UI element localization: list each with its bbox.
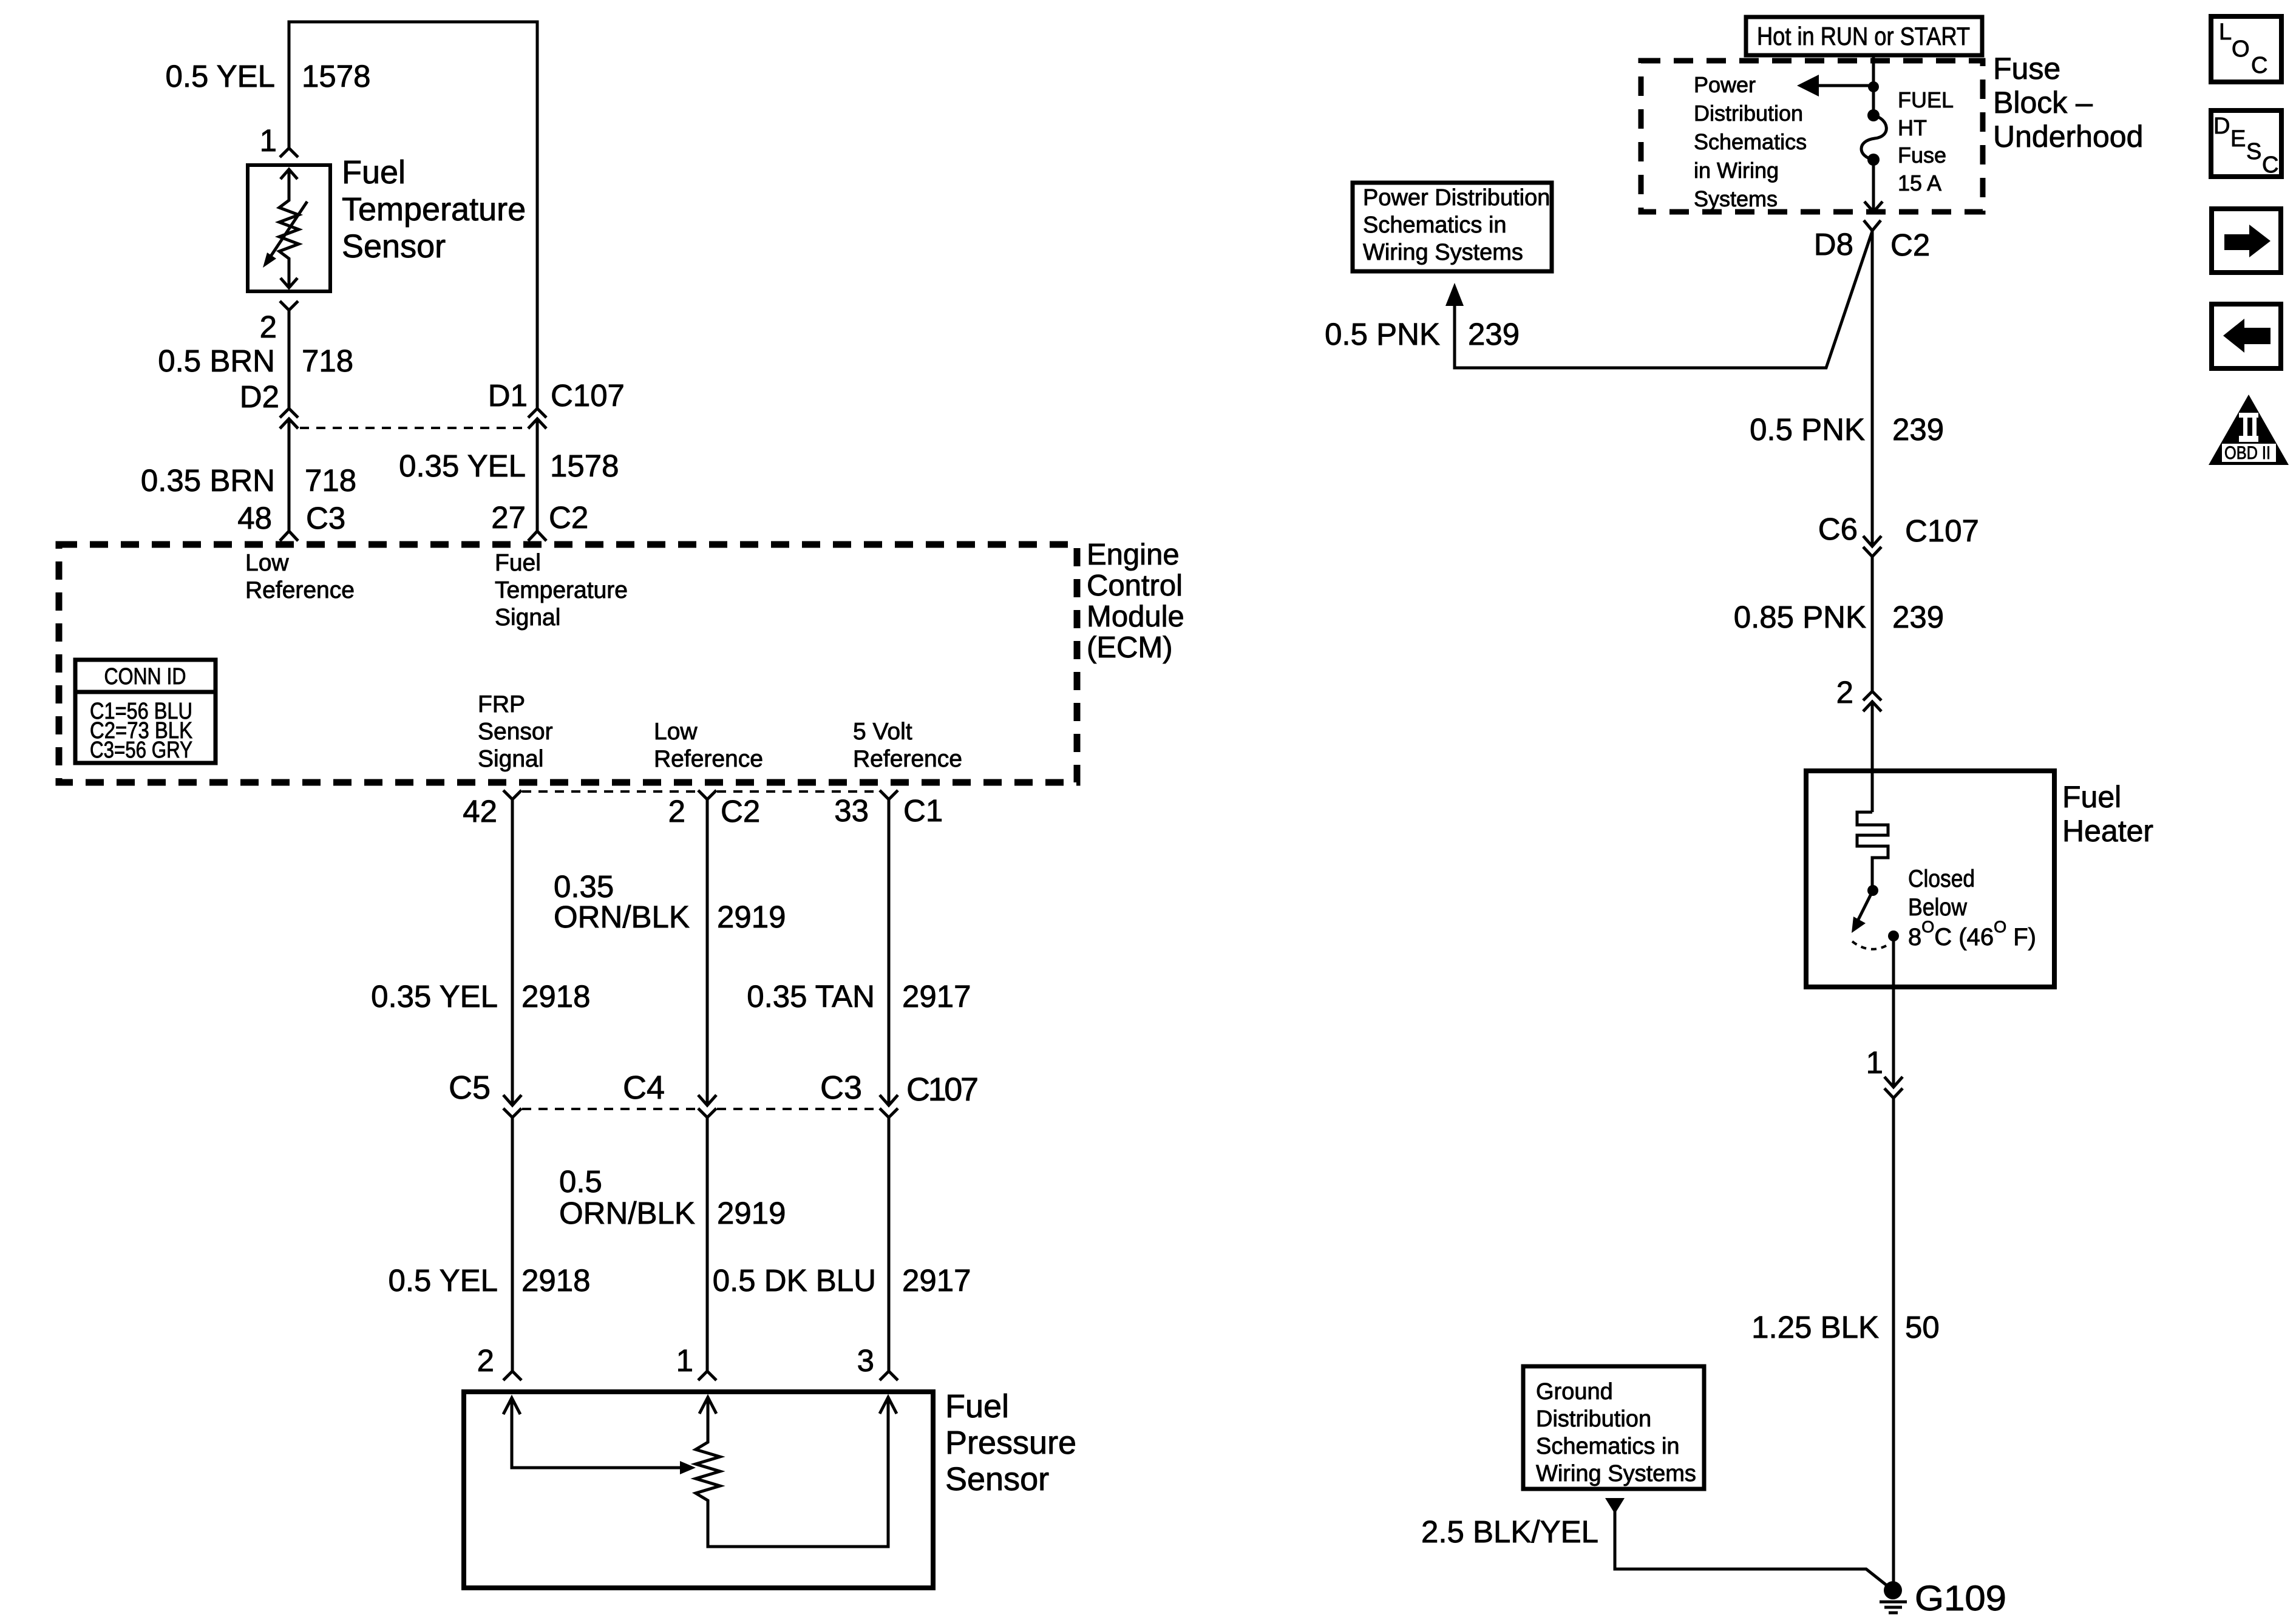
ground G109 symbol — [1880, 1581, 1907, 1613]
terminal fuel pressure sensor pin 3 — [880, 1371, 898, 1380]
svg-text:Sensor: Sensor — [945, 1461, 1049, 1497]
svg-text:0.5 PNK: 0.5 PNK — [1750, 412, 1865, 447]
wire fuel heater output — [1892, 936, 1895, 1087]
terminal ECM pin 2 — [698, 790, 716, 799]
wire from hot feed into fuse block — [1872, 55, 1875, 117]
Hot in RUN or START box — [1746, 17, 1982, 55]
icon OBD II triangle — [2209, 395, 2289, 465]
label Closed Below 8C 46F — [1908, 866, 2036, 951]
svg-text:0.5: 0.5 — [559, 1164, 602, 1199]
svg-text:C3: C3 — [306, 501, 345, 535]
svg-text:Module: Module — [1087, 600, 1184, 633]
svg-text:718: 718 — [305, 463, 356, 498]
labels pin 27 connector C2 — [491, 500, 588, 535]
label wire 0.5 PNK 239 branch — [1325, 317, 1520, 351]
svg-text:C1: C1 — [903, 793, 943, 828]
svg-text:0.5 BRN: 0.5 BRN — [158, 344, 275, 378]
label connector D2 — [240, 379, 279, 414]
svg-text:Fuse: Fuse — [1898, 143, 1946, 168]
wire CKT 239 main vertical to C6 — [1871, 231, 1874, 546]
thermistor symbol fuel temperature sensor — [263, 169, 307, 288]
fuel heater box — [1806, 771, 2054, 987]
fuse block underhood dashed box — [1641, 61, 1983, 212]
svg-text:CONN ID: CONN ID — [104, 664, 186, 690]
svg-text:1: 1 — [260, 123, 277, 158]
svg-text:(ECM): (ECM) — [1087, 631, 1173, 664]
svg-text:Reference: Reference — [853, 746, 962, 772]
svg-text:G109: G109 — [1915, 1579, 2006, 1617]
svg-text:Fuel: Fuel — [342, 154, 406, 191]
labels pin 48 connector C3 — [237, 501, 345, 535]
label Low Reference (pin 2) — [654, 719, 763, 772]
svg-text:Distribution: Distribution — [1694, 101, 1803, 126]
label Engine Control Module (ECM) — [1087, 538, 1184, 664]
dashed line ECM pin row — [522, 790, 879, 793]
dashed link connector C107 between D2 and D1 — [300, 427, 527, 429]
svg-text:Below: Below — [1908, 894, 1967, 921]
label wire 1.25 BLK 50 — [1751, 1310, 1940, 1344]
svg-text:C2: C2 — [721, 794, 760, 829]
svg-text:1578: 1578 — [302, 59, 370, 93]
labels ECM pins 42 2 C2 33 C1 — [463, 793, 943, 829]
terminal fuel pressure sensor pin 2 — [503, 1371, 521, 1380]
label Fuse Block - Underhood — [1993, 52, 2143, 154]
svg-text:Engine: Engine — [1087, 538, 1180, 571]
svg-text:15 A: 15 A — [1898, 171, 1941, 195]
svg-text:Sensor: Sensor — [342, 228, 446, 265]
label wire 0.35 YEL 2918 — [371, 979, 590, 1014]
svg-text:D8: D8 — [1814, 227, 1853, 262]
svg-text:Underhood: Underhood — [1993, 120, 2143, 154]
wire CKT 2919 upper segment — [706, 799, 709, 1105]
svg-text:1.25 BLK: 1.25 BLK — [1751, 1310, 1879, 1344]
label wire 0.5 YEL 1578 — [165, 59, 370, 93]
label FUEL HT Fuse 15 A — [1898, 87, 1954, 195]
svg-text:50: 50 — [1905, 1310, 1940, 1344]
connector C3 break symbol — [880, 1095, 898, 1117]
svg-text:S: S — [2246, 139, 2261, 164]
svg-text:ORN/BLK: ORN/BLK — [554, 900, 690, 934]
svg-text:1: 1 — [1866, 1045, 1883, 1080]
fuse FUEL HT 15 A symbol — [1861, 109, 1886, 166]
wire CKT 239 0.85 segment — [1871, 557, 1874, 691]
svg-text:239: 239 — [1468, 317, 1520, 351]
svg-text:Low: Low — [654, 719, 698, 745]
thermal switch fuel heater — [1852, 885, 1899, 949]
wire CKT 1578 top loop from fuel temp sensor pin 1 to connector D1 — [289, 22, 537, 408]
svg-text:Sensor: Sensor — [478, 719, 553, 745]
svg-text:Power: Power — [1694, 72, 1756, 97]
svg-text:Ground: Ground — [1536, 1379, 1613, 1405]
label wire 0.5 DK BLU 2917 — [713, 1263, 971, 1298]
svg-text:0.85 PNK: 0.85 PNK — [1734, 600, 1866, 634]
label Fuel Temperature Signal (pin 27) — [495, 550, 628, 631]
svg-text:239: 239 — [1892, 412, 1944, 447]
svg-text:2917: 2917 — [902, 979, 971, 1014]
pin 2 label fuel temperature sensor — [260, 310, 277, 344]
svg-text:L: L — [2219, 19, 2232, 45]
svg-text:2919: 2919 — [717, 1196, 786, 1230]
label wire 0.35 YEL 1578 — [399, 449, 619, 483]
svg-text:Reference: Reference — [654, 746, 763, 772]
svg-text:2918: 2918 — [521, 979, 590, 1014]
wire CKT 718 from D2 to ECM pin 48 — [288, 419, 291, 531]
terminal D8 C2 — [1864, 220, 1881, 231]
svg-text:ORN/BLK: ORN/BLK — [559, 1196, 695, 1230]
fuel pressure sensor internal pin 3 arrow — [880, 1397, 897, 1414]
svg-text:C5: C5 — [449, 1070, 491, 1106]
svg-text:1578: 1578 — [550, 449, 619, 483]
svg-text:0.35 BRN: 0.35 BRN — [141, 463, 275, 498]
svg-text:C107: C107 — [551, 378, 625, 413]
svg-text:FRP: FRP — [478, 691, 525, 717]
svg-text:2: 2 — [668, 794, 685, 829]
svg-text:Distribution: Distribution — [1536, 1406, 1651, 1432]
terminal pin 1 fuel temperature sensor — [280, 148, 298, 157]
wire CKT 1578 from D1 to ECM pin 27 — [536, 419, 539, 531]
labels connector D8 C2 — [1814, 227, 1930, 262]
svg-text:C2: C2 — [549, 500, 588, 535]
svg-text:E: E — [2230, 126, 2246, 152]
label wire 2.5 BLK/YEL — [1421, 1514, 1598, 1549]
svg-text:Signal: Signal — [478, 746, 543, 772]
svg-text:27: 27 — [491, 500, 526, 535]
terminal pin 2 fuel temperature sensor — [280, 301, 298, 310]
terminal ECM pin 27 — [528, 531, 546, 541]
fuel pressure sensor internal pin 2 arrow and wiper lead — [503, 1398, 696, 1474]
wire CKT 50 to ground — [1892, 1098, 1895, 1583]
svg-text:Fuel: Fuel — [495, 550, 541, 576]
terminal fuel pressure sensor pin 1 — [698, 1371, 716, 1380]
wire CKT 2918 upper segment — [511, 799, 514, 1105]
svg-text:C: C — [2251, 53, 2267, 78]
svg-text:Low: Low — [245, 550, 289, 576]
triangle connector ground distribution — [1605, 1498, 1625, 1514]
ECM engine control module dashed box — [59, 544, 1077, 782]
wire fuse output to connector D8 — [1872, 160, 1875, 212]
nav icon LOC — [2211, 16, 2281, 82]
svg-text:HT: HT — [1898, 115, 1927, 140]
svg-text:718: 718 — [302, 344, 353, 378]
svg-text:0.5 YEL: 0.5 YEL — [388, 1263, 498, 1298]
svg-text:Temperature: Temperature — [495, 577, 628, 603]
svg-text:0.35 TAN: 0.35 TAN — [747, 979, 875, 1014]
label wire 0.5 ORN/BLK 2919 — [559, 1164, 786, 1230]
svg-text:0.35 YEL: 0.35 YEL — [371, 979, 498, 1014]
labels connector D1 C107 — [488, 378, 625, 413]
splice 2 break above fuel heater — [1863, 691, 1881, 711]
connector D1 break symbol — [528, 408, 546, 429]
label wire 0.5 BRN 718 — [158, 344, 353, 378]
svg-text:Temperature: Temperature — [342, 191, 526, 228]
svg-text:2: 2 — [260, 310, 277, 344]
svg-text:C6: C6 — [1818, 512, 1858, 546]
svg-text:Signal: Signal — [495, 605, 560, 631]
fuel temperature sensor box — [248, 165, 330, 291]
svg-text:in Wiring: in Wiring — [1694, 158, 1779, 183]
wire CKT 2917 upper segment — [888, 799, 891, 1105]
svg-text:Schematics: Schematics — [1694, 129, 1807, 154]
svg-text:C107: C107 — [1905, 514, 1979, 548]
label wire 0.85 PNK 239 — [1734, 600, 1944, 634]
junction dot hot feed — [1868, 81, 1879, 92]
arrow fuse block exit D8 — [1864, 202, 1883, 212]
svg-text:C2: C2 — [1890, 228, 1930, 262]
label wire 0.35 ORN/BLK 2919 — [554, 869, 786, 934]
label Fuel Pressure Sensor — [945, 1388, 1076, 1497]
svg-text:D1: D1 — [488, 378, 528, 413]
svg-text:0.5 DK BLU: 0.5 DK BLU — [713, 1263, 876, 1298]
terminal ECM pin 48 — [280, 531, 298, 541]
labels connector C6 C107 — [1818, 512, 1979, 548]
svg-text:48: 48 — [237, 501, 272, 535]
svg-text:C4: C4 — [623, 1070, 665, 1106]
connector break pin 1 below fuel heater — [1884, 1077, 1903, 1098]
svg-text:2: 2 — [1836, 675, 1853, 710]
label wire 0.5 PNK 239 main — [1750, 412, 1944, 447]
svg-text:33: 33 — [834, 793, 869, 828]
svg-text:OBD II: OBD II — [2224, 443, 2271, 463]
label Low Reference (pin 48) — [245, 550, 355, 603]
svg-text:Heater: Heater — [2062, 814, 2153, 848]
svg-text:2.5 BLK/YEL: 2.5 BLK/YEL — [1421, 1514, 1598, 1549]
branch arrow to power distribution schematics — [1797, 75, 1873, 97]
svg-text:C3: C3 — [820, 1070, 862, 1106]
svg-text:1: 1 — [676, 1343, 693, 1378]
label Fuel Heater — [2062, 780, 2153, 848]
svg-text:Wiring Systems: Wiring Systems — [1536, 1461, 1696, 1486]
svg-text:2: 2 — [477, 1343, 494, 1378]
fuel pressure sensor box — [464, 1392, 933, 1588]
svg-text:Block –: Block – — [1993, 86, 2093, 120]
svg-text:D: D — [2213, 114, 2230, 139]
svg-text:C: C — [2262, 152, 2278, 178]
svg-text:Fuel: Fuel — [2062, 780, 2121, 814]
labels fuel pressure sensor pins 2 1 3 — [477, 1343, 874, 1378]
wire CKT 239 branch diagonal to power distribution — [1445, 231, 1872, 368]
svg-text:C107: C107 — [906, 1071, 979, 1108]
connector C4 break symbol — [698, 1095, 716, 1117]
heater element resistor — [1857, 812, 1888, 886]
svg-text:Power Distribution: Power Distribution — [1363, 185, 1550, 211]
svg-text:Wiring Systems: Wiring Systems — [1363, 240, 1523, 265]
svg-text:D2: D2 — [240, 379, 279, 414]
nav icon back arrow — [2212, 304, 2281, 368]
connector D2 break symbol — [280, 408, 298, 429]
label pin 2 fuel heater — [1836, 675, 1853, 710]
svg-text:Reference: Reference — [245, 577, 355, 603]
svg-text:2917: 2917 — [902, 1263, 971, 1298]
svg-text:O: O — [2232, 36, 2250, 62]
label pin 1 fuel heater — [1866, 1045, 1883, 1080]
connector C6 C107 symbols — [1863, 536, 1881, 557]
svg-text:0.35 YEL: 0.35 YEL — [399, 449, 526, 483]
dashed link connector C107 row C5 C4 C3 — [522, 1108, 879, 1110]
svg-text:0.35: 0.35 — [554, 869, 614, 904]
wire CKT 2919 lower segment — [706, 1117, 709, 1371]
wire into fuel heater — [1871, 702, 1874, 812]
svg-text:FUEL: FUEL — [1898, 87, 1954, 112]
svg-text:Schematics in: Schematics in — [1536, 1434, 1680, 1459]
label 5 Volt Reference (pin 33) — [853, 719, 962, 772]
terminal ECM pin 33 — [880, 790, 898, 799]
wire CKT 2918 lower segment — [511, 1117, 514, 1371]
svg-text:C3=56 GRY: C3=56 GRY — [90, 737, 192, 763]
svg-text:Pressure: Pressure — [945, 1425, 1076, 1461]
wire CKT 718 from pin 2 to connector D2 — [288, 310, 291, 408]
connector C5 break symbol — [503, 1095, 521, 1117]
svg-text:Hot in RUN or START: Hot in RUN or START — [1757, 22, 1970, 50]
label ground G109 — [1915, 1579, 2006, 1617]
svg-text:5 Volt: 5 Volt — [853, 719, 912, 745]
label wire 0.5 YEL 2918 — [388, 1263, 590, 1298]
fuel pressure sensor internal pin 1 arrow and potentiometer resistor — [696, 1397, 888, 1547]
svg-text:42: 42 — [463, 794, 497, 829]
label wire 0.35 TAN 2917 — [747, 979, 971, 1014]
svg-text:3: 3 — [857, 1343, 874, 1378]
svg-text:Fuse: Fuse — [1993, 52, 2060, 86]
labels connectors C5 C4 C3 C107 — [449, 1070, 979, 1108]
label wire 0.35 BRN 718 — [141, 463, 356, 498]
label Fuel Temperature Sensor — [342, 154, 526, 265]
nav icon DESC — [2211, 110, 2281, 178]
ground distribution schematics box — [1523, 1366, 1704, 1489]
svg-text:2918: 2918 — [521, 1263, 590, 1298]
svg-text:239: 239 — [1892, 600, 1944, 634]
nav icon forward arrow — [2212, 209, 2281, 273]
svg-text:Fuel: Fuel — [945, 1388, 1009, 1425]
label Power Distribution Schematics in Wiring Systems (fuse block) — [1694, 72, 1807, 211]
wire CKT 2.5 BLK/YEL ground feed — [1615, 1511, 1887, 1585]
svg-text:0.5 PNK: 0.5 PNK — [1325, 317, 1440, 351]
wire CKT 2917 lower segment — [888, 1117, 891, 1371]
svg-text:0.5 YEL: 0.5 YEL — [165, 59, 275, 93]
svg-text:Schematics in: Schematics in — [1363, 212, 1507, 238]
svg-text:Systems: Systems — [1694, 186, 1778, 211]
svg-text:Control: Control — [1087, 569, 1183, 602]
svg-text:2919: 2919 — [717, 900, 786, 934]
power distribution schematics in wiring systems box — [1353, 183, 1552, 271]
CONN ID table — [75, 660, 216, 763]
terminal ECM pin 42 — [503, 790, 521, 799]
label FRP Sensor Signal (pin 42) — [478, 691, 553, 772]
pin 1 label fuel temperature sensor — [260, 123, 277, 158]
svg-text:Closed: Closed — [1908, 866, 1975, 892]
